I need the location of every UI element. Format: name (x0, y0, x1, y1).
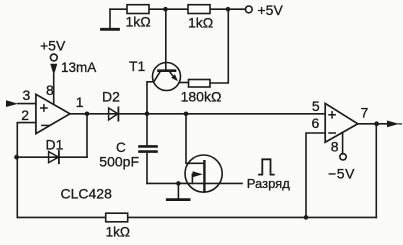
svg-text:1kΩ: 1kΩ (106, 224, 130, 239)
svg-text:C: C (116, 140, 126, 155)
svg-text:D2: D2 (102, 89, 120, 105)
svg-text:+5V: +5V (40, 37, 66, 53)
svg-text:+5V: +5V (258, 2, 284, 18)
svg-text:Разряд: Разряд (247, 176, 290, 191)
svg-text:2: 2 (21, 107, 29, 123)
svg-text:7: 7 (361, 105, 369, 121)
svg-text:3: 3 (23, 87, 31, 103)
svg-text:1kΩ: 1kΩ (126, 14, 151, 30)
svg-text:T1: T1 (129, 58, 146, 74)
svg-text:13mA: 13mA (61, 60, 96, 75)
svg-text:180kΩ: 180kΩ (181, 88, 222, 104)
svg-text:−5V: −5V (328, 166, 355, 182)
svg-text:5: 5 (312, 98, 320, 114)
svg-text:1kΩ: 1kΩ (188, 15, 213, 31)
svg-text:500pF: 500pF (99, 154, 139, 170)
svg-text:CLC428: CLC428 (61, 186, 113, 202)
svg-text:8: 8 (331, 139, 339, 155)
svg-text:8: 8 (46, 82, 54, 98)
svg-text:1: 1 (76, 94, 84, 110)
svg-text:6: 6 (312, 115, 320, 131)
svg-text:D1: D1 (46, 136, 64, 152)
